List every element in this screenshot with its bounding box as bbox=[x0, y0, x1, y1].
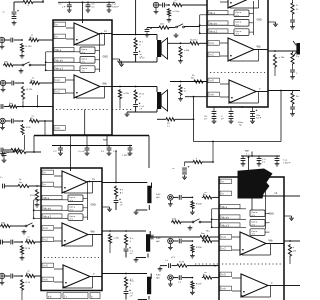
resistor OUT1 zobel R bbox=[134, 38, 137, 50]
IN9 connector ground bbox=[168, 282, 173, 287]
wire bbox=[212, 142, 214, 163]
U3 bypass.3 ground bbox=[107, 151, 112, 156]
svg-text:d b: d b bbox=[82, 52, 85, 54]
svg-text:a 20k: a 20k bbox=[279, 57, 285, 59]
svg-text:a 22k: a 22k bbox=[114, 238, 120, 240]
U1 ground symbol bbox=[117, 59, 122, 64]
wire bbox=[173, 240, 178, 242]
junction bbox=[251, 155, 253, 157]
wire bbox=[242, 161, 244, 162]
U4 output 1 wire bbox=[284, 195, 300, 197]
U4 op-amp3 input wire bbox=[232, 290, 241, 292]
resistor IN8 series R bbox=[202, 239, 213, 242]
svg-text:ou: ou bbox=[32, 77, 34, 79]
wire bbox=[213, 277, 219, 279]
svg-text:Ru: Ru bbox=[296, 96, 299, 98]
pin tick bbox=[219, 250, 230, 252]
capacitor U3 bypass.4 bbox=[128, 148, 133, 150]
svg-text:R u2: R u2 bbox=[139, 94, 144, 96]
wire bbox=[156, 57, 158, 62]
wire bbox=[86, 150, 88, 151]
junction bbox=[109, 230, 111, 232]
svg-text:Wlb: Wlb bbox=[91, 231, 96, 234]
wire bbox=[4, 106, 8, 108]
pin tick bbox=[41, 186, 52, 188]
junction bbox=[214, 265, 216, 267]
junction bbox=[60, 145, 62, 147]
svg-text:Tyt: Tyt bbox=[239, 124, 242, 127]
resistor OUT3 zobel R bbox=[114, 186, 117, 198]
junction bbox=[42, 1, 44, 3]
gnd pin wire bbox=[102, 206, 110, 208]
svg-text:Cprt a: Cprt a bbox=[81, 58, 88, 61]
U1 op-amp2 feedback wire bbox=[76, 97, 105, 99]
op-amp IC U4 package outline bbox=[219, 177, 284, 300]
svg-text:In 2: In 2 bbox=[210, 54, 215, 57]
capacitor IN3 input cap bbox=[11, 119, 13, 124]
resistor IN3 shunt R bbox=[21, 124, 24, 135]
wire bbox=[185, 161, 193, 163]
wire bbox=[129, 146, 131, 149]
capacitor U1 bypass.2 bbox=[86, 5, 91, 7]
U4 op-amp3 feedback wire bbox=[242, 296, 271, 298]
capacitor OUT3 output bar bbox=[147, 186, 151, 204]
wire bbox=[21, 291, 23, 300]
U4 bypass.2 ground bbox=[257, 162, 262, 167]
wire bbox=[249, 22, 254, 24]
wire bbox=[147, 254, 149, 258]
U4 pin box bbox=[220, 223, 240, 227]
svg-text:Raz Rci: Raz Rci bbox=[190, 40, 198, 42]
resistor R row3 bbox=[8, 105, 18, 108]
wire bbox=[87, 2, 89, 5]
svg-text:R 20k: R 20k bbox=[196, 247, 203, 249]
U3 protection block 3 bbox=[68, 214, 83, 221]
wire bbox=[168, 42, 189, 44]
wire bbox=[3, 149, 10, 151]
U4 output 1 wire bbox=[263, 195, 285, 197]
switch SW1 bbox=[22, 62, 31, 66]
U4 blob to blocks wire bbox=[251, 199, 253, 216]
U3 op-amp1 input wire bbox=[54, 186, 62, 188]
wire bbox=[292, 15, 294, 20]
junction bbox=[70, 145, 72, 147]
svg-text:war: war bbox=[103, 139, 107, 142]
wire bbox=[135, 55, 137, 63]
U1 bypass.2 ground bbox=[86, 8, 91, 13]
resistor zobel edge bbox=[291, 92, 294, 105]
pin tick bbox=[41, 174, 52, 176]
feed cap ground bbox=[2, 158, 7, 163]
wire bbox=[108, 150, 110, 151]
U4 mute link wire bbox=[211, 209, 213, 227]
wire bbox=[129, 150, 131, 151]
U4 pin box bbox=[220, 235, 232, 240]
U3 pin box bbox=[42, 182, 54, 187]
U4 op-amp2 input wire bbox=[232, 249, 240, 251]
wire bbox=[3, 156, 5, 159]
U1 pin box bbox=[54, 22, 66, 27]
wire bbox=[170, 27, 175, 29]
resistor IN4 shunt R bbox=[167, 8, 170, 17]
capacitor corner 2b bbox=[182, 172, 187, 174]
resistor IN7 series R bbox=[202, 196, 213, 199]
pin tick bbox=[219, 276, 230, 278]
resistor zobel edge bbox=[291, 52, 294, 65]
resistor Raz bbox=[189, 42, 200, 45]
resistor IN4 series R bbox=[172, 3, 183, 6]
wire bbox=[11, 225, 25, 227]
capacitor U3 bypass.1 bbox=[58, 148, 63, 150]
seam rail wire bbox=[34, 135, 149, 137]
U4 output 2 wire bbox=[284, 240, 300, 242]
U1 dashed extension bbox=[112, 109, 133, 111]
U3 ground symbol bbox=[107, 207, 112, 212]
U1 pin box bbox=[54, 89, 66, 94]
U4 op-amp2 feedback wire bbox=[241, 253, 243, 255]
seam rail right wire bbox=[148, 136, 150, 169]
op-amp U2.2 bbox=[228, 38, 254, 61]
wire bbox=[249, 12, 254, 14]
capacitor C low bbox=[1, 148, 3, 153]
resistor SW3 mute R bbox=[0, 224, 11, 227]
IN6 connector ground bbox=[0, 280, 4, 285]
capacitor Cz bbox=[169, 263, 171, 268]
wire bbox=[37, 95, 39, 107]
svg-text:2 r: 2 r bbox=[64, 296, 67, 299]
resistor R mute feed bbox=[22, 0, 34, 3]
U1 bypass supply rail bbox=[58, 1, 115, 3]
svg-text:a 2.2m: a 2.2m bbox=[173, 11, 180, 13]
pin tick bbox=[53, 81, 64, 83]
capacitor U3 bypass.3 bbox=[107, 148, 112, 150]
resistor IN9 series R bbox=[202, 276, 213, 279]
node IN6 junction bbox=[21, 275, 23, 277]
OUT2 output wire bbox=[112, 86, 157, 88]
op-amp U1.1 bbox=[74, 23, 99, 45]
U1 output 1 junction bbox=[101, 33, 103, 35]
svg-text:ou: ou bbox=[28, 270, 30, 272]
U3 op-amp2 input wire bbox=[54, 240, 62, 242]
U2 op-amp2 input wire bbox=[220, 42, 228, 44]
mute C2 ground bbox=[145, 33, 150, 38]
wire bbox=[213, 107, 215, 111]
wire bbox=[86, 146, 88, 149]
wire bbox=[125, 294, 127, 300]
svg-text:Cprt a: Cprt a bbox=[251, 211, 258, 214]
node OUT3 junction bbox=[115, 182, 117, 184]
capacitor IN5 input cap bbox=[11, 240, 13, 245]
wire bbox=[292, 51, 294, 52]
svg-text:In b: In b bbox=[44, 279, 49, 282]
resistor SW1 mute R bbox=[3, 63, 14, 66]
resistor R10d bbox=[35, 189, 38, 202]
U3 op-amp1 feedback wire bbox=[92, 182, 94, 194]
U2 protection block 3 bbox=[234, 29, 249, 36]
OUT4 zobel ground bbox=[134, 258, 139, 263]
svg-text:ou: ou bbox=[28, 236, 30, 238]
wire bbox=[136, 257, 146, 259]
resistor IN6 shunt R bbox=[20, 279, 23, 291]
svg-text:d b: d b bbox=[236, 15, 239, 17]
wire bbox=[289, 257, 291, 264]
capacitor C5b bbox=[212, 117, 217, 119]
U2 mute rail bbox=[200, 24, 234, 26]
svg-text:Tu2 F: Tu2 F bbox=[256, 118, 262, 120]
wire bbox=[14, 275, 22, 277]
corner cap ground bbox=[12, 21, 17, 26]
resistor IN2 shunt R bbox=[21, 86, 24, 100]
wire bbox=[115, 203, 117, 211]
svg-text:Cprt a: Cprt a bbox=[81, 48, 88, 51]
U1 pin box bbox=[54, 66, 74, 70]
U4 internal bus wire bbox=[265, 191, 267, 230]
U3 op-amp3 feedback wire bbox=[92, 277, 94, 289]
capacitor U1 bypass.3 bbox=[107, 5, 112, 7]
capacitor C3 corner bbox=[12, 17, 17, 19]
U1 mute rail bbox=[46, 69, 80, 71]
U3 pin box bbox=[42, 263, 54, 268]
wire bbox=[292, 0, 294, 2]
resistor R1 bbox=[165, 118, 176, 121]
junction bbox=[276, 155, 278, 157]
U4 pin box bbox=[220, 179, 232, 184]
wire bbox=[182, 240, 192, 242]
U1 bypass feed wire bbox=[82, 1, 84, 3]
resistor R low bbox=[10, 148, 22, 151]
svg-text:a 22k: a 22k bbox=[124, 93, 130, 95]
svg-text:14m: 14m bbox=[172, 219, 176, 221]
resistor a20k 2 bbox=[288, 244, 291, 257]
U1 op-amp2 feedback wire bbox=[104, 87, 106, 99]
svg-text:4: 4 bbox=[139, 45, 140, 47]
wire bbox=[27, 151, 41, 153]
capacitor zobel edge bbox=[290, 107, 295, 109]
C6a ground bbox=[250, 119, 255, 124]
U4 Vs feed wire bbox=[248, 157, 250, 177]
U1 pin box bbox=[54, 126, 66, 131]
U1 protection block 2 bbox=[80, 57, 95, 64]
U4 pin box bbox=[220, 246, 232, 251]
svg-text:d b: d b bbox=[82, 71, 85, 73]
wire bbox=[3, 152, 5, 153]
node IN7 junction bbox=[192, 197, 194, 199]
junction bbox=[45, 61, 47, 63]
wire bbox=[31, 64, 46, 66]
wire bbox=[68, 7, 70, 8]
connector IN8 bbox=[168, 238, 173, 245]
node IN9 junction bbox=[192, 277, 194, 279]
wire bbox=[13, 2, 15, 11]
U3 mute rail bbox=[34, 199, 68, 201]
wire bbox=[172, 265, 177, 267]
junction bbox=[86, 145, 88, 147]
svg-text:ou: ou bbox=[204, 272, 206, 274]
U2 output 3 wire bbox=[256, 91, 268, 93]
IN1 shunt R ground bbox=[20, 54, 25, 59]
wire bbox=[211, 236, 219, 238]
U4 mute rail bbox=[212, 208, 246, 210]
U4 op-amp3 feedback wire bbox=[270, 286, 272, 298]
wire bbox=[44, 121, 46, 136]
wire bbox=[147, 27, 158, 29]
wire bbox=[60, 146, 62, 149]
resistor OUT4 zobel R bbox=[124, 234, 127, 246]
zobel edge ground bbox=[290, 112, 295, 117]
U2 op-amp1 input wire bbox=[220, 1, 228, 3]
svg-text:In 5: In 5 bbox=[44, 265, 49, 268]
wire bbox=[258, 156, 260, 159]
junction bbox=[211, 218, 213, 220]
U3 mute rail bbox=[34, 209, 68, 211]
pin tick bbox=[207, 56, 218, 58]
U3 op-amp1 feedback wire bbox=[64, 192, 93, 194]
wire bbox=[274, 68, 276, 76]
wire bbox=[122, 61, 158, 63]
IN7 connector ground bbox=[168, 202, 173, 207]
resistor R 20k bbox=[179, 46, 182, 58]
svg-text:20k: 20k bbox=[293, 251, 296, 253]
wire bbox=[156, 35, 158, 41]
wire bbox=[213, 196, 219, 198]
connector IN2 bbox=[0, 80, 5, 87]
SW1 switch ground bbox=[19, 69, 24, 74]
junction bbox=[199, 32, 201, 34]
wire bbox=[249, 31, 254, 33]
junction bbox=[212, 141, 214, 143]
U3 op-amp3 input wire bbox=[54, 281, 63, 283]
junction bbox=[45, 69, 47, 71]
U2 pin box bbox=[208, 29, 228, 33]
U2 op-amp3 input wire bbox=[220, 96, 229, 98]
U1 protection block 1 bbox=[80, 47, 95, 54]
capacitor OUT4 output bar bbox=[146, 234, 150, 252]
node OUT1 junction bbox=[135, 34, 137, 36]
junction bbox=[33, 151, 35, 153]
capacitor Cb bbox=[229, 117, 234, 119]
junction bbox=[242, 155, 244, 157]
pin tick bbox=[219, 238, 230, 240]
SW4 switch ground bbox=[188, 226, 193, 231]
capacitor C4b bbox=[3, 184, 5, 189]
switch SW4 bbox=[192, 219, 201, 223]
gnd pin wire bbox=[112, 58, 120, 60]
svg-text:R 27k: R 27k bbox=[196, 284, 203, 286]
wire bbox=[201, 221, 212, 223]
capacitor IN2 input cap bbox=[12, 81, 14, 86]
wire bbox=[127, 111, 157, 113]
U4 bypass.1 ground bbox=[241, 162, 246, 167]
junction bbox=[248, 156, 250, 158]
connector IN6 bbox=[0, 273, 5, 280]
wire bbox=[150, 236, 199, 238]
svg-text:d b: d b bbox=[252, 234, 255, 236]
wire bbox=[135, 102, 137, 104]
U4 pin box bbox=[220, 204, 240, 208]
connector IN9 bbox=[168, 275, 173, 282]
U3 op-amp3 feedback wire bbox=[64, 287, 93, 289]
resistor Rg1d bbox=[17, 184, 30, 187]
capacitor zobel edge bbox=[290, 20, 295, 22]
svg-text:Cprt a: Cprt a bbox=[69, 206, 76, 209]
svg-text:Rz Hi: Rz Hi bbox=[179, 262, 184, 264]
IN3 connector ground bbox=[0, 125, 5, 130]
wire bbox=[276, 161, 278, 162]
U4 op-amp2 feedback wire bbox=[242, 254, 271, 256]
U1 mute rail bbox=[46, 61, 80, 63]
op-amp IC U1 package outline bbox=[53, 20, 112, 135]
svg-text:4: 4 bbox=[139, 97, 140, 99]
capacitor OUT2 zobel C bbox=[133, 105, 138, 107]
wire from seam to OUT3 bbox=[115, 150, 117, 183]
wire bbox=[170, 81, 207, 83]
wire bbox=[276, 156, 278, 159]
wire bbox=[5, 275, 10, 277]
C ground bbox=[229, 119, 234, 124]
OUT1 zobel ground bbox=[119, 62, 124, 67]
zobel edge ground bbox=[290, 25, 295, 30]
wire bbox=[60, 150, 62, 151]
U3 bypass.1 ground bbox=[58, 151, 63, 156]
node OUT5 junction bbox=[125, 273, 127, 275]
capacitor OUT5 output bar bbox=[147, 277, 151, 295]
junction bbox=[289, 240, 291, 242]
wire bbox=[242, 156, 244, 159]
pin tick bbox=[207, 96, 218, 98]
wire bbox=[160, 265, 167, 267]
wire bbox=[24, 135, 26, 150]
junction bbox=[108, 145, 110, 147]
U4 protection block 3 bbox=[250, 229, 265, 236]
junction bbox=[22, 106, 24, 108]
U3 op-amp2 input wire bbox=[54, 227, 62, 229]
resistor a20k bbox=[273, 54, 276, 68]
U3 pin box bbox=[42, 170, 54, 175]
wire bbox=[83, 216, 88, 218]
svg-text:d b: d b bbox=[252, 215, 255, 217]
pin tick bbox=[41, 241, 52, 243]
junction bbox=[37, 106, 39, 108]
capacitor zobel edge bbox=[290, 70, 295, 72]
wire bbox=[14, 64, 22, 66]
wire bbox=[265, 222, 270, 224]
IN5 shunt R ground bbox=[20, 256, 25, 261]
U2 pin box bbox=[208, 21, 228, 25]
U2 mute rail bbox=[200, 32, 234, 34]
wire bbox=[173, 277, 178, 279]
pin tick bbox=[207, 82, 218, 84]
U1 bypass.3 ground bbox=[107, 8, 112, 13]
junction bbox=[108, 2, 110, 4]
svg-text:d b: d b bbox=[70, 200, 73, 202]
U1 pin box bbox=[54, 47, 74, 51]
speaker OUT2 bbox=[157, 90, 168, 111]
U2 op-amp2 feedback wire bbox=[229, 59, 231, 61]
op-amp U4.2 bbox=[240, 232, 266, 255]
U2 op-amp2 input wire bbox=[220, 55, 228, 57]
svg-text:Cprt a: Cprt a bbox=[69, 215, 76, 218]
wire bbox=[14, 120, 22, 122]
R10d ground bbox=[35, 203, 40, 208]
svg-text:In 5: In 5 bbox=[210, 80, 215, 83]
capacitor C bbox=[229, 112, 234, 114]
wire bbox=[213, 114, 215, 117]
wire bbox=[148, 205, 150, 210]
U1 pin box bbox=[54, 34, 66, 39]
connector IN7 bbox=[168, 195, 173, 202]
wire bbox=[95, 59, 100, 61]
U4 mute rail bbox=[212, 218, 246, 220]
